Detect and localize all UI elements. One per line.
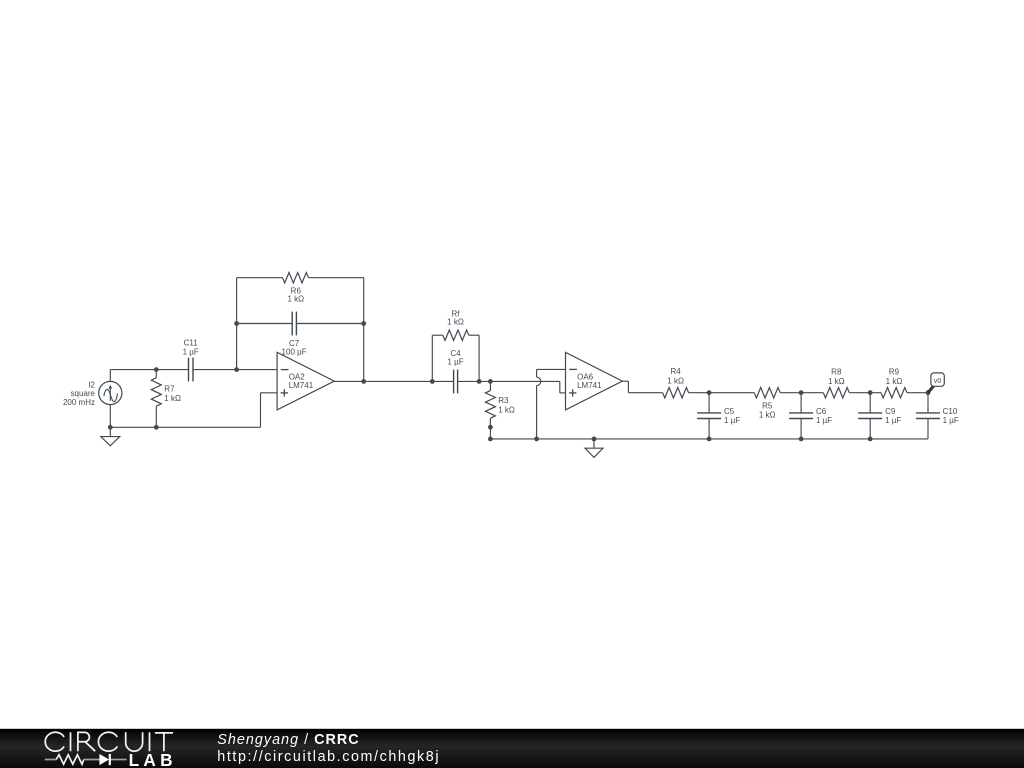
svg-text:R5: R5 xyxy=(762,401,773,410)
label R6 1 kOhm xyxy=(287,286,304,303)
flag v0 xyxy=(928,373,944,393)
svg-text:1 kΩ: 1 kΩ xyxy=(667,377,684,386)
node Rf left xyxy=(430,379,435,384)
svg-text:1 kΩ: 1 kΩ xyxy=(164,394,181,403)
capacitor C9 xyxy=(858,393,882,439)
node rail C9 xyxy=(868,437,873,442)
ground mid xyxy=(585,439,603,458)
svg-text:1 µF: 1 µF xyxy=(943,416,959,425)
label C9 1 uF xyxy=(885,407,901,425)
wire OA2 output rail xyxy=(334,381,565,393)
svg-text:R4: R4 xyxy=(670,367,681,376)
wire bottom rail mid xyxy=(490,438,928,440)
capacitor C7 xyxy=(237,312,364,336)
resistor R8 xyxy=(823,388,849,398)
wire ladder seg2 xyxy=(780,392,823,394)
capacitor C11 xyxy=(189,358,194,382)
wire OA6 minus input xyxy=(537,369,566,439)
capacitor C4 xyxy=(454,370,458,394)
label C10 1 uF xyxy=(943,407,959,425)
resistor R5 xyxy=(754,388,780,398)
wire ladder seg1 xyxy=(689,392,755,394)
wire feedback right riser xyxy=(363,278,365,382)
wire bottom rail left xyxy=(110,393,277,428)
ground left xyxy=(101,427,120,446)
label R3 1 kOhm xyxy=(498,396,515,414)
node R3 top xyxy=(488,379,493,384)
svg-text:C11: C11 xyxy=(184,338,199,347)
label OA2 LM741 xyxy=(289,373,314,390)
resistor R7 xyxy=(151,370,161,428)
resistor R6 xyxy=(237,273,364,283)
resistor Rf xyxy=(432,330,479,381)
label R7 1 kOhm xyxy=(164,384,181,403)
node rail C6 xyxy=(799,437,804,442)
svg-text:square: square xyxy=(71,389,96,398)
capacitor C6 xyxy=(789,393,813,439)
node C9 top xyxy=(868,390,873,395)
svg-text:C5: C5 xyxy=(724,407,735,416)
svg-text:1 kΩ: 1 kΩ xyxy=(498,406,515,415)
svg-text:R9: R9 xyxy=(889,368,900,377)
wire top rail left xyxy=(110,370,277,382)
resistor R9 xyxy=(881,388,907,398)
label C5 1 uF xyxy=(724,407,740,425)
logo resistor-diode doodle xyxy=(45,754,127,765)
resistor R3 xyxy=(485,381,495,427)
label C6 1 uF xyxy=(816,407,832,425)
wire ladder seg4 xyxy=(907,392,928,394)
label C7 100 uF xyxy=(282,339,307,357)
node OA2 output xyxy=(361,379,366,384)
svg-text:R3: R3 xyxy=(498,396,509,405)
logo CIRCUIT xyxy=(45,732,173,751)
node C7 left xyxy=(234,321,239,326)
label R4 1 kOhm xyxy=(667,367,684,386)
label I2 square 200 mHz xyxy=(63,381,96,407)
node rail C5 xyxy=(707,437,712,442)
label R9 1 kOhm xyxy=(886,368,903,386)
capacitor C5 xyxy=(697,393,721,439)
op-amp OA6 xyxy=(566,352,623,410)
resistor R4 xyxy=(663,388,689,398)
node source bottom xyxy=(108,425,113,430)
node C6 top xyxy=(799,390,804,395)
svg-text:1 kΩ: 1 kΩ xyxy=(886,377,903,386)
wire feedback left riser xyxy=(236,278,238,370)
wire ladder seg3 xyxy=(849,392,881,394)
svg-text:100 µF: 100 µF xyxy=(282,348,307,357)
svg-text:1 kΩ: 1 kΩ xyxy=(759,411,776,420)
svg-text:1 µF: 1 µF xyxy=(885,416,901,425)
svg-text:1 kΩ: 1 kΩ xyxy=(828,377,845,386)
svg-text:R7: R7 xyxy=(164,384,175,393)
node R7 bottom xyxy=(154,425,159,430)
label Rf 1 kOhm xyxy=(447,310,464,327)
svg-text:LM741: LM741 xyxy=(289,381,314,390)
node C7 right xyxy=(361,321,366,326)
svg-text:R8: R8 xyxy=(831,368,842,377)
op-amp OA2 xyxy=(277,352,334,410)
svg-text:1 µF: 1 µF xyxy=(724,416,740,425)
node rail R3 xyxy=(488,437,493,442)
svg-text:Shengyang / CRRC: Shengyang / CRRC xyxy=(217,732,359,748)
svg-text:C9: C9 xyxy=(885,407,896,416)
label C11 1 uF xyxy=(183,338,199,356)
svg-text:200 mHz: 200 mHz xyxy=(63,398,95,407)
wire R3 to rail xyxy=(489,427,491,439)
svg-text:v0: v0 xyxy=(934,378,942,385)
svg-text:1 kΩ: 1 kΩ xyxy=(287,295,304,304)
svg-text:LAB: LAB xyxy=(129,750,177,768)
svg-text:http://circuitlab.com/chhgk8j: http://circuitlab.com/chhgk8j xyxy=(217,749,440,765)
svg-text:C4: C4 xyxy=(450,349,461,358)
label OA6 LM741 xyxy=(577,373,602,390)
wire OA6 output jog xyxy=(622,381,662,393)
svg-text:C6: C6 xyxy=(816,407,827,416)
svg-text:C10: C10 xyxy=(943,407,958,416)
label R8 1 kOhm xyxy=(828,368,845,386)
node minus wire bottom xyxy=(534,437,539,442)
node Rf right xyxy=(477,379,482,384)
node rail ground xyxy=(592,437,597,442)
node C5 top xyxy=(707,390,712,395)
capacitor C10 xyxy=(916,393,940,439)
svg-text:1 µF: 1 µF xyxy=(816,416,832,425)
label R5 1 kOhm xyxy=(759,401,776,419)
node R3 terminal xyxy=(488,425,493,430)
label C4 1 uF xyxy=(447,349,463,367)
current source I2 xyxy=(99,381,122,404)
footer bar xyxy=(0,729,1024,768)
svg-text:1 µF: 1 µF xyxy=(183,348,199,357)
node R7 top xyxy=(154,367,159,372)
svg-text:1 µF: 1 µF xyxy=(447,358,463,367)
node v0 xyxy=(926,390,931,395)
svg-text:1 kΩ: 1 kΩ xyxy=(447,317,464,326)
svg-text:I2: I2 xyxy=(88,381,95,390)
svg-text:LM741: LM741 xyxy=(577,381,602,390)
node feedback input xyxy=(234,367,239,372)
